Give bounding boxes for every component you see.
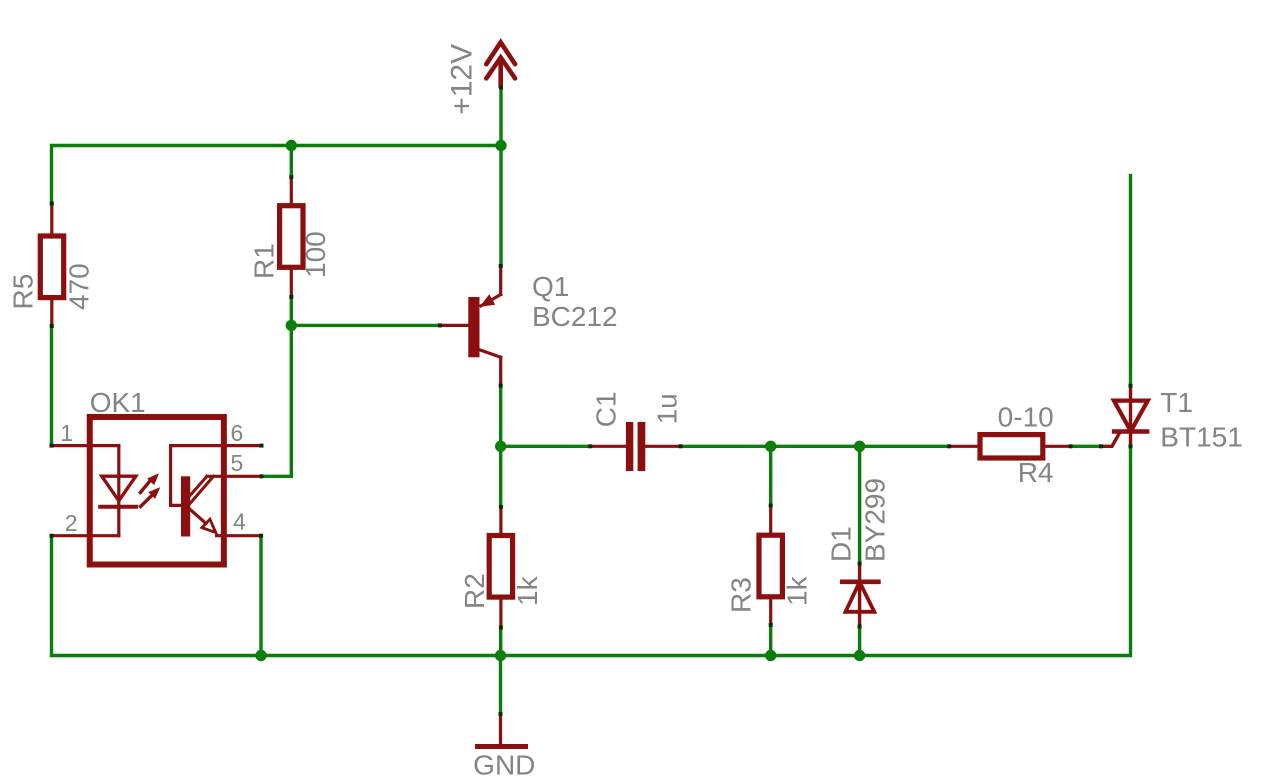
- wire D1 top: [858, 446, 861, 563]
- wire R5 bottom to OK1 pin1: [50, 326, 53, 446]
- svg-text:1k: 1k: [782, 575, 813, 606]
- wire Q1 collector down to mid node: [499, 386, 502, 447]
- junction bottom rail at R3: [765, 650, 776, 661]
- junction mid node at R3: [765, 441, 776, 452]
- wire GND stub: [499, 656, 502, 715]
- svg-text:1u: 1u: [651, 393, 682, 424]
- wire C1 right to R4 left: [681, 445, 950, 448]
- resistor R3: [759, 506, 782, 626]
- svg-text:R1: R1: [249, 243, 280, 279]
- svg-text:D1: D1: [826, 526, 857, 562]
- wire mid node to C1 left: [501, 445, 591, 448]
- wire +12V stub above junction: [499, 88, 502, 146]
- svg-text:470: 470: [64, 263, 95, 310]
- svg-text:0-10: 0-10: [998, 402, 1054, 433]
- svg-text:4: 4: [233, 509, 246, 535]
- svg-text:6: 6: [231, 420, 244, 446]
- svg-text:OK1: OK1: [90, 387, 146, 418]
- pin connection dots: [50, 86, 1133, 717]
- svg-text:R3: R3: [726, 577, 757, 613]
- junction top rail at R1: [286, 140, 297, 151]
- junction bottom rail at D1: [854, 650, 865, 661]
- wire OK1 pin2 down, bottom rail, up to T1 cathode: [52, 446, 1131, 655]
- wire R4 right to T1 gate: [1071, 445, 1101, 448]
- svg-text:R2: R2: [459, 573, 490, 609]
- thyristor T1: [1101, 386, 1148, 447]
- transistor Q1: [440, 266, 501, 386]
- wire OK1 pin4 down to rail: [259, 536, 262, 656]
- wire R2 top: [499, 446, 502, 507]
- svg-text:BC212: BC212: [532, 301, 618, 332]
- svg-text:+12V: +12V: [446, 44, 479, 115]
- svg-text:1k: 1k: [512, 575, 543, 606]
- svg-text:R5: R5: [8, 274, 39, 310]
- resistor R4: [949, 435, 1070, 458]
- junction bottom rail at R2/GND: [495, 650, 506, 661]
- wire R3 bottom: [769, 625, 772, 656]
- svg-text:BT151: BT151: [1160, 422, 1243, 453]
- wire OK1 pin5 up to base node: [262, 325, 292, 476]
- junction mid node at D1: [854, 441, 865, 452]
- wire R1 bottom to base node: [290, 297, 293, 325]
- junction top rail at +12V: [495, 140, 506, 151]
- diode D1: [842, 564, 878, 627]
- svg-text:5: 5: [231, 450, 244, 476]
- wire R2 bottom: [499, 628, 502, 656]
- svg-text:Q1: Q1: [532, 271, 569, 302]
- capacitor C1: [590, 422, 680, 471]
- ground GND: [478, 714, 526, 747]
- svg-text:GND: GND: [473, 749, 535, 780]
- svg-text:T1: T1: [1160, 387, 1193, 418]
- optocoupler OK1: [52, 417, 262, 565]
- wire R1 top: [290, 146, 293, 178]
- wire R3 top: [769, 446, 772, 505]
- wire net +12V top rail: [52, 146, 502, 204]
- junction mid node at Q1/R2: [495, 441, 506, 452]
- resistor R1: [280, 177, 303, 297]
- svg-text:BY299: BY299: [860, 478, 891, 562]
- wire T1 anode top: [1129, 176, 1132, 386]
- junction base node: [286, 320, 297, 331]
- svg-text:C1: C1: [590, 391, 621, 427]
- svg-text:R4: R4: [1018, 457, 1054, 488]
- resistor R2: [489, 507, 512, 628]
- wire D1 bottom: [858, 627, 861, 656]
- junction bottom rail at pin4: [255, 650, 266, 661]
- svg-text:1: 1: [60, 420, 73, 446]
- svg-text:100: 100: [300, 231, 331, 278]
- power +12V: [486, 42, 515, 87]
- wire base node to Q1 base: [291, 324, 440, 327]
- wire junction to Q1 emitter: [499, 146, 502, 266]
- resistor R5: [40, 204, 63, 327]
- svg-text:2: 2: [65, 510, 78, 536]
